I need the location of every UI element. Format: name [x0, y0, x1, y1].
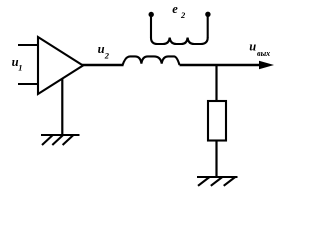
- svg-text:1: 1: [18, 62, 22, 72]
- wire output: [180, 64, 269, 66]
- svg-text:e: e: [172, 2, 178, 16]
- ground left hatch 3: [63, 135, 74, 145]
- svg-text:u: u: [98, 42, 105, 56]
- arrowhead output: [259, 61, 274, 70]
- wire resistor to ground: [215, 141, 217, 178]
- wire op-amp output: [82, 64, 124, 66]
- label u2: [98, 42, 110, 61]
- op-amp U1: [38, 37, 83, 94]
- ground left hatch 2: [52, 135, 63, 145]
- svg-text:u: u: [249, 40, 256, 54]
- winding e2 secondary coil: [151, 38, 208, 44]
- wire op-amp to ground: [61, 79, 63, 135]
- winding e2 secondary right lead: [207, 15, 209, 39]
- ground right hatch 2: [211, 177, 223, 186]
- ground right hatch 1: [198, 177, 210, 186]
- resistor R1: [208, 101, 226, 141]
- wire input top: [18, 44, 38, 46]
- svg-text:2: 2: [180, 10, 186, 20]
- ground right bar: [197, 176, 238, 178]
- inductor L1 (primary winding): [123, 56, 180, 65]
- label u1: [12, 55, 23, 73]
- node junction wire to resistor: [215, 65, 217, 101]
- ground right hatch 3: [224, 177, 236, 186]
- label e2: [172, 2, 186, 20]
- ground left hatch 1: [42, 135, 53, 145]
- svg-text:2: 2: [104, 51, 110, 61]
- label u_vyh: [249, 40, 270, 59]
- ground left bar: [41, 134, 80, 136]
- winding e2 secondary left lead: [150, 15, 152, 39]
- polarity dot left: [149, 12, 154, 17]
- wire input bottom: [18, 83, 38, 85]
- polarity dot right: [205, 12, 210, 17]
- svg-text:вых: вых: [257, 49, 270, 58]
